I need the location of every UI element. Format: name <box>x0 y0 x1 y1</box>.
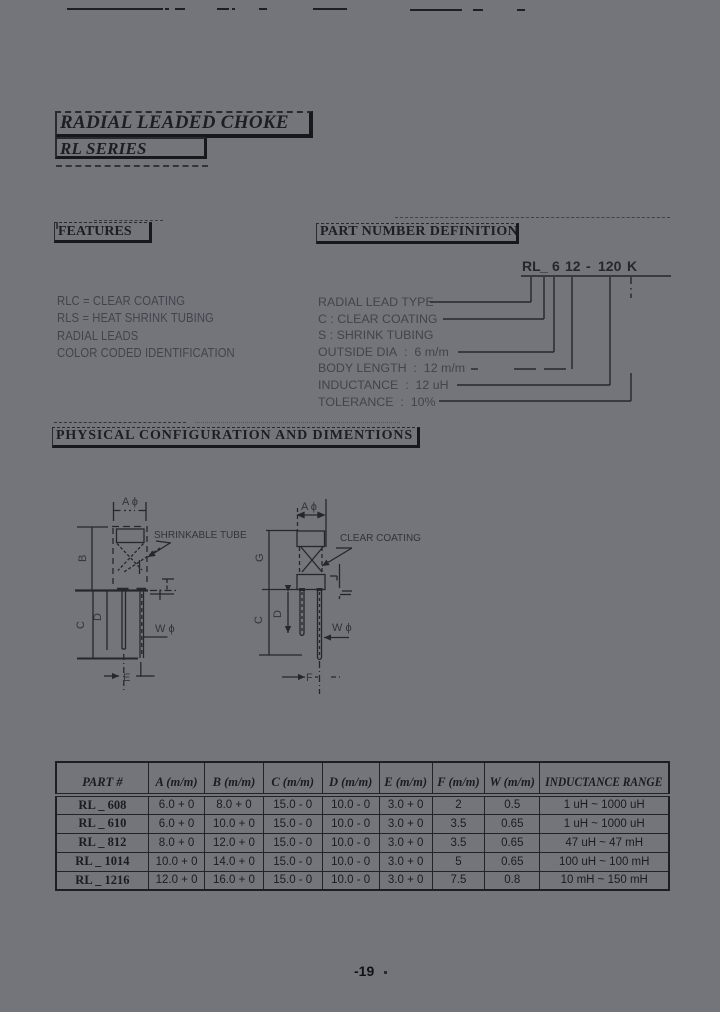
svg-text:W ϕ: W ϕ <box>332 622 352 634</box>
svg-text:CLEAR COATING: CLEAR COATING <box>340 533 421 544</box>
svg-text:B: B <box>77 555 89 562</box>
svg-text:D: D <box>92 613 104 621</box>
svg-text:E: E <box>123 672 130 684</box>
svg-text:G: G <box>254 553 266 562</box>
svg-text:F: F <box>306 672 313 684</box>
svg-text:SHRINKABLE TUBE: SHRINKABLE TUBE <box>154 530 247 541</box>
svg-text:A ϕ: A ϕ <box>122 496 138 508</box>
svg-text:C: C <box>253 616 265 624</box>
svg-text:W ϕ: W ϕ <box>155 623 175 635</box>
svg-text:C: C <box>75 621 87 629</box>
svg-text:D: D <box>272 610 284 618</box>
svg-text:A ϕ: A ϕ <box>301 501 317 513</box>
